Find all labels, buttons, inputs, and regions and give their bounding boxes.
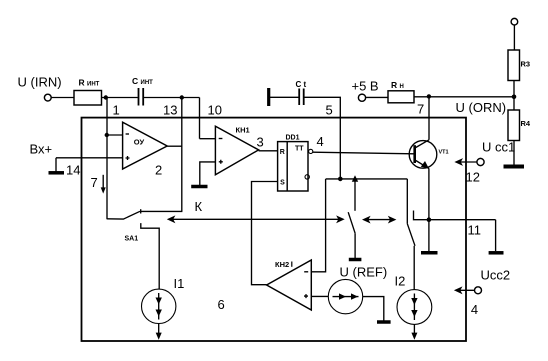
terminal +5B (358, 94, 365, 101)
wire Ct to pin5 (304, 97, 340, 179)
DD1 output bubble top (309, 149, 313, 153)
wire +5B to Rn (366, 96, 388, 98)
ground KH1 plus (191, 185, 207, 189)
wire Ucc1 arrow into box (458, 161, 477, 163)
op-amp OU (2) (123, 122, 168, 169)
capacitor Cint (138, 88, 140, 106)
wire R3 to R4 (513, 81, 515, 111)
svg-text:VT1: VT1 (439, 150, 449, 156)
svg-text:U cc1: U cc1 (482, 140, 515, 155)
terminal Ucc1 (477, 158, 484, 165)
DD1 output bubble bottom (305, 175, 309, 179)
svg-text:ОУ: ОУ (134, 138, 145, 147)
wire I1 to bottom with arrow (158, 324, 160, 337)
switch S3 blade (407, 224, 415, 246)
control arrow between switches (366, 219, 392, 221)
wire 179 horizontal (326, 178, 408, 180)
wire Uref to ground (363, 297, 384, 321)
wire Cint to pin10 corner (144, 97, 200, 99)
wire terminal to R3 (513, 25, 515, 50)
svg-text:S: S (280, 180, 285, 187)
wire opamp output (167, 145, 182, 147)
wire Ucc2 arrow into box (458, 289, 475, 291)
switch SA1 contact tick (140, 209, 142, 213)
switch S2 line down (354, 179, 356, 211)
wire pin13 vertical (181, 98, 183, 212)
junction pin13 top (180, 95, 184, 99)
wire terminal to Rint (51, 97, 74, 99)
ground Bx+ (55, 158, 57, 172)
capacitor Ct bar (267, 88, 270, 106)
svg-text:I1: I1 (174, 276, 185, 291)
wire SA1 to opamp output line (141, 210, 183, 212)
svg-text:Ucc2: Ucc2 (481, 268, 511, 283)
switch SA1 common lead (107, 211, 140, 219)
switch S3 feed from wire179 (406, 179, 408, 224)
terminal U (IRN) (44, 94, 51, 101)
wire pin10 vertical (199, 98, 201, 139)
svg-text:ТТ: ТТ (295, 146, 304, 153)
switch S2 to ground (354, 233, 356, 258)
svg-text:C t: C t (296, 80, 307, 89)
svg-text:7: 7 (417, 102, 424, 117)
svg-text:DD1: DD1 (286, 134, 300, 141)
svg-text:11: 11 (468, 223, 482, 238)
junction node 1 (104, 95, 108, 99)
wire collector up pin7 (428, 96, 430, 139)
wire KH1 output to DD1 R (259, 150, 278, 152)
wire DD1 S input (252, 182, 278, 285)
svg-text:5: 5 (326, 103, 333, 118)
wire pin1 vertical (106, 98, 108, 220)
switch S3 fixed contact stub (414, 211, 496, 220)
capacitor Ct (298, 89, 300, 106)
svg-text:10: 10 (208, 103, 222, 118)
ground Uref (377, 320, 391, 324)
junction pin5 wire179 (338, 177, 343, 182)
ground S2 (349, 258, 362, 262)
wire DD1 output to transistor base (313, 152, 414, 154)
comparator KH2 (267, 260, 312, 310)
svg-text:R Н: R Н (391, 80, 404, 90)
ground emitter (428, 169, 430, 252)
junction opamp minus tap (105, 133, 109, 137)
svg-text:1: 1 (113, 103, 120, 118)
wire R4 to ground (513, 141, 515, 165)
svg-text:R: R (280, 149, 285, 156)
current source I2 (397, 290, 432, 325)
flip-flop DD1 (278, 142, 308, 191)
switch SA1 throw2 stub to I1 (141, 223, 159, 289)
svg-text:U (ORN): U (ORN) (456, 100, 507, 115)
svg-text:4: 4 (317, 134, 324, 149)
wire KH2 plus to Uref (311, 295, 328, 297)
wire Bx+ to plus input (56, 157, 123, 159)
wire bar to Ct (270, 96, 299, 98)
svg-text:4: 4 (471, 302, 478, 317)
resistor R3 (508, 50, 520, 81)
terminal top R3 (511, 18, 518, 25)
switch S2 blade (348, 212, 355, 233)
wire I2 to bottom with arrow (413, 324, 415, 336)
svg-text:КН1: КН1 (236, 125, 250, 134)
junction pin7 top (427, 94, 431, 98)
terminal Ucc2 (475, 287, 482, 294)
current source I1 (142, 289, 176, 323)
svg-text:R ИНТ: R ИНТ (79, 78, 100, 88)
ground node 11 outside (495, 220, 497, 251)
wire KH2 minus up to wire179 (311, 179, 325, 272)
svg-text:12: 12 (466, 170, 480, 185)
svg-text:7: 7 (91, 175, 98, 190)
svg-text:C ИНТ: C ИНТ (132, 76, 153, 86)
svg-text:SA1: SA1 (125, 236, 139, 243)
svg-text:U (REF): U (REF) (340, 265, 388, 280)
svg-text:+5 В: +5 В (352, 79, 379, 94)
wire KH1 plus to ground (200, 162, 216, 185)
svg-text:R4: R4 (521, 119, 531, 128)
wire Rint to node 1 (102, 97, 138, 99)
wire S3 to I2 (413, 246, 415, 289)
svg-text:13: 13 (163, 103, 177, 118)
resistor Rint (74, 91, 102, 106)
wire opamp minus (107, 134, 123, 136)
wire KH1 minus (200, 138, 216, 140)
svg-text:К: К (195, 199, 203, 214)
IC body box 6 (82, 118, 467, 341)
control arrow K double (171, 218, 341, 220)
svg-text:3: 3 (257, 135, 264, 150)
junction emitter node11 (427, 217, 432, 222)
svg-text:14: 14 (66, 163, 80, 178)
resistor R4 (508, 110, 520, 141)
svg-text:U (IRN): U (IRN) (18, 75, 62, 90)
svg-text:КН2: КН2 (275, 260, 289, 269)
wire Rn to R3R4 junction (414, 96, 514, 98)
svg-text:Вх+: Вх+ (30, 142, 53, 157)
ground R4 (504, 165, 525, 169)
resistor Rn (388, 91, 414, 103)
svg-text:2: 2 (155, 163, 162, 178)
switch S2 control up arrow (352, 175, 358, 182)
junction R3R4 (512, 95, 517, 100)
svg-text:I2: I2 (395, 274, 406, 289)
svg-text:6: 6 (218, 297, 225, 312)
voltage source U (REF) (328, 279, 362, 313)
comparator KH1 (215, 126, 258, 175)
transistor VT1 (409, 141, 437, 169)
svg-text:R3: R3 (521, 60, 531, 69)
